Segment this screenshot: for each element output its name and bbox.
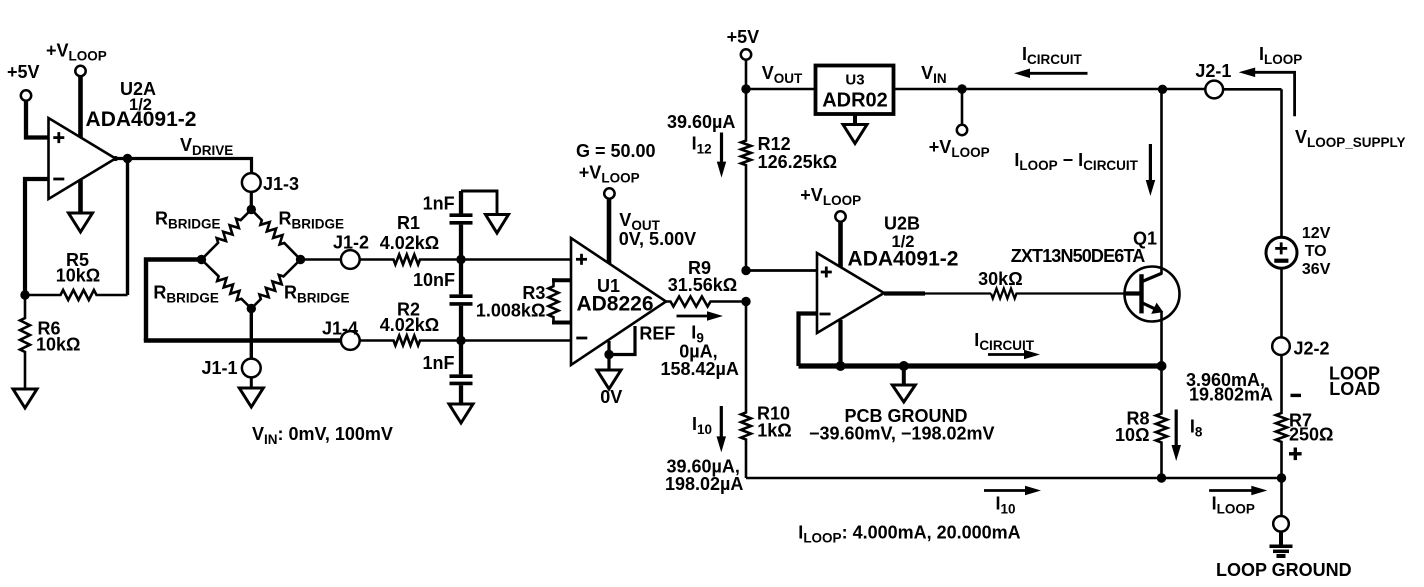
polarity minus (R7) xyxy=(1291,394,1302,397)
resistor 30kΩ xyxy=(991,289,1125,299)
svg-text:+5V: +5V xyxy=(727,27,760,47)
svg-text:+5V: +5V xyxy=(7,62,40,82)
svg-text:39.60µA: 39.60µA xyxy=(667,112,735,132)
current annotation I8 xyxy=(1175,410,1178,448)
svg-text:G = 50.00: G = 50.00 xyxy=(576,141,656,161)
svg-text:10kΩ: 10kΩ xyxy=(56,266,100,286)
svg-text:LOOP GROUND: LOOP GROUND xyxy=(1216,560,1352,580)
wire REF to 0V ground xyxy=(607,341,610,370)
svg-text:158.42µA: 158.42µA xyxy=(661,359,739,379)
wire battery to J2-2 xyxy=(1280,268,1283,336)
voltage reference U3 ADR02 xyxy=(816,66,894,115)
wire J1-3 to bridge top xyxy=(250,192,253,210)
bridge bottom node xyxy=(247,304,256,313)
svg-text:U3: U3 xyxy=(845,71,864,88)
node junction REF dot xyxy=(604,350,613,359)
svg-text:J1-4: J1-4 xyxy=(322,319,358,339)
svg-text:R12: R12 xyxy=(758,134,791,154)
resistor R10 1kΩ xyxy=(741,302,751,479)
ground 0V (U1 REF) xyxy=(597,370,621,389)
ground (R6) xyxy=(13,389,37,408)
connector J1-2 xyxy=(341,250,360,269)
node junction R2/C dot xyxy=(456,336,465,345)
node junction +VLOOP tap xyxy=(957,84,966,93)
node junction R8 bottom xyxy=(1157,473,1166,482)
wire bottom rail xyxy=(746,477,1282,480)
svg-text:0V, 5.00V: 0V, 5.00V xyxy=(619,229,696,249)
wire U2A inverting input xyxy=(25,179,48,295)
svg-text:10nF: 10nF xyxy=(413,270,455,290)
wire VOUT rail xyxy=(746,88,816,91)
wire U2B -in feedback xyxy=(799,314,818,367)
ground (bottom 1nF) xyxy=(449,404,473,423)
svg-text:198.02µA: 198.02µA xyxy=(665,474,743,494)
node junction R7/rail xyxy=(1277,473,1286,482)
svg-text:ADA4091-2: ADA4091-2 xyxy=(86,108,197,131)
wire bridge right to J1-2 xyxy=(301,258,341,261)
node junction emitter/bus xyxy=(1157,361,1167,371)
ground (J1-1) xyxy=(250,377,253,388)
current annotation I9 xyxy=(677,315,710,318)
op-amp U2A xyxy=(49,118,116,199)
current annotation ILOOP (bottom rail) xyxy=(1209,489,1253,492)
svg-text:U2B: U2B xyxy=(884,214,920,234)
svg-text:126.25kΩ: 126.25kΩ xyxy=(758,152,838,172)
svg-text:ADR02: ADR02 xyxy=(822,90,888,112)
svg-text:J2-2: J2-2 xyxy=(1294,339,1330,359)
ground (U2A V-) xyxy=(78,180,83,213)
svg-text:36V: 36V xyxy=(1302,261,1331,278)
resistor RBRIDGE (top-right) xyxy=(251,210,300,260)
resistor RBRIDGE (bottom-right) xyxy=(251,260,300,309)
resistor RBRIDGE (bottom-left) xyxy=(202,260,252,309)
wire U2A feedback xyxy=(126,159,129,296)
capacitor 10nF xyxy=(459,260,463,295)
svg-text:4.02kΩ: 4.02kΩ xyxy=(380,233,439,253)
svg-text:J1-2: J1-2 xyxy=(333,233,369,253)
connector J2-1 xyxy=(1205,81,1223,99)
connector J1-4 xyxy=(341,331,360,350)
thick PCB ground bus xyxy=(799,363,1162,368)
svg-text:TO: TO xyxy=(1305,243,1327,260)
in-amp U1 AD8226 xyxy=(571,238,666,365)
svg-text:−39.60mV, −198.02mV: −39.60mV, −198.02mV xyxy=(809,424,995,444)
svg-text:4.02kΩ: 4.02kΩ xyxy=(380,315,439,335)
bridge right node xyxy=(296,255,305,264)
loop ground terminal xyxy=(1273,516,1289,532)
wire U2A output VDRIVE xyxy=(123,154,132,163)
svg-text:0V: 0V xyxy=(600,387,622,407)
connector J1-1 xyxy=(242,359,261,378)
resistor R5 10kΩ xyxy=(25,290,128,300)
svg-text:LOAD: LOAD xyxy=(1329,379,1380,399)
svg-text:REF: REF xyxy=(639,324,675,344)
svg-text:R1: R1 xyxy=(397,213,420,233)
wire bus to U2B +in xyxy=(746,269,817,272)
wire Q1 emitter xyxy=(1160,311,1163,366)
node junction VOUT rail xyxy=(741,84,750,93)
ground (U3) xyxy=(853,114,857,125)
battery 12V to 36V xyxy=(1266,237,1297,268)
svg-text:J1-3: J1-3 xyxy=(263,174,299,194)
node junction U2B V-/bus xyxy=(836,361,846,371)
wire to U1 -in xyxy=(461,339,571,342)
op-amp U2B xyxy=(817,253,884,333)
svg-text:10kΩ: 10kΩ xyxy=(36,335,80,355)
svg-text:ZXT13N50DE6TA: ZXT13N50DE6TA xyxy=(1011,246,1146,266)
wire VIN rail xyxy=(894,88,1206,91)
resistor R3 1.008kΩ xyxy=(552,278,571,282)
resistor R8 10Ω xyxy=(1156,366,1167,478)
node junction U2B +in xyxy=(741,266,750,275)
svg-text:ADA4091-2: ADA4091-2 xyxy=(848,248,959,271)
ground (top 1nF) xyxy=(486,215,509,234)
wire bridge left to J1-4 xyxy=(146,260,202,341)
wire Q1 collector xyxy=(1160,89,1163,274)
wire top cap to ground xyxy=(461,191,497,215)
svg-text:1kΩ: 1kΩ xyxy=(757,420,791,440)
resistor R1 4.02kΩ xyxy=(360,255,461,265)
svg-text:31.56kΩ: 31.56kΩ xyxy=(668,275,738,295)
resistor R12 126.25kΩ xyxy=(741,89,751,271)
capacitor 1nF (bottom) xyxy=(459,341,463,375)
resistor R9 31.56kΩ xyxy=(666,297,746,307)
wire U2B V- to ground bus xyxy=(838,320,842,366)
svg-text:19.802mA: 19.802mA xyxy=(1189,385,1273,405)
current annotation I10 (bottom rail) xyxy=(984,489,1027,492)
resistor R7 250Ω xyxy=(1276,355,1287,478)
wire J2-1 to loop supply xyxy=(1223,88,1281,91)
earth ground symbol xyxy=(1279,532,1283,547)
wire bridge bottom to J1-1 xyxy=(250,309,253,359)
transistor Q1 ZXT13N50DE6TA xyxy=(1125,267,1180,322)
svg-text:1.008kΩ: 1.008kΩ xyxy=(476,301,546,321)
svg-text:1nF: 1nF xyxy=(422,353,454,373)
svg-text:AD8226: AD8226 xyxy=(576,293,653,316)
connector J1-3 xyxy=(242,173,261,192)
wire to U1 +in xyxy=(461,258,571,261)
node junction PCB ground/bus xyxy=(899,361,909,371)
svg-text:J2-1: J2-1 xyxy=(1195,61,1231,81)
svg-text:250Ω: 250Ω xyxy=(1289,425,1333,445)
capacitor 1nF (top) xyxy=(459,191,463,214)
svg-text:1nF: 1nF xyxy=(423,194,455,214)
svg-text:30kΩ: 30kΩ xyxy=(978,269,1022,289)
svg-text:J1-1: J1-1 xyxy=(201,358,237,378)
node junction R9/bus xyxy=(741,297,750,306)
resistor R6 10kΩ xyxy=(20,295,30,388)
bridge left node xyxy=(197,255,206,264)
pcb ground symbol xyxy=(902,366,906,385)
wire to loop ground xyxy=(1280,478,1283,515)
current annotation ICIRCUIT (top) xyxy=(1028,72,1088,75)
current annotation ILOOP (top right) xyxy=(1255,72,1295,116)
resistor RBRIDGE (top-left) xyxy=(202,210,252,260)
svg-text:10Ω: 10Ω xyxy=(1115,425,1149,445)
node junction R1/C dot xyxy=(456,255,465,264)
svg-text:12V: 12V xyxy=(1302,225,1331,242)
REF pin wire xyxy=(609,326,635,355)
wire U2B output xyxy=(884,291,925,295)
node junction collector rail xyxy=(1158,85,1167,94)
supply stub +VLOOP (net) xyxy=(961,89,964,125)
bridge top node xyxy=(247,205,256,214)
node junction R5/R6 xyxy=(20,290,29,299)
connector J2-2 xyxy=(1272,337,1290,355)
resistor R2 4.02kΩ xyxy=(360,336,461,346)
polarity plus (R7) xyxy=(1289,452,1302,455)
wire loop supply bus (upper) xyxy=(1280,89,1283,237)
